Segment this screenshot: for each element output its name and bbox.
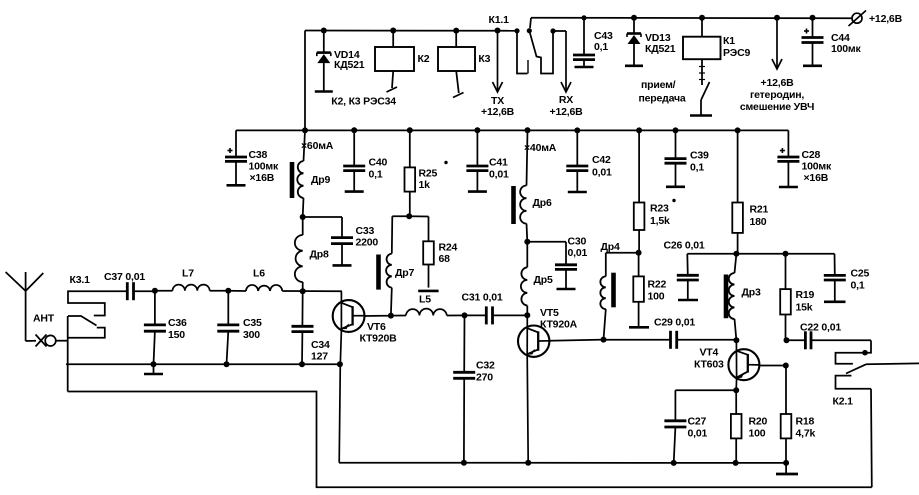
wire [236,129,788,131]
node [407,127,413,133]
label ANT [33,313,55,325]
svg-text:+12,6В: +12,6В [761,77,795,89]
label C34 [311,339,330,363]
wire [549,340,603,341]
svg-text:К3.1: К3.1 [70,274,91,286]
arrow RX +12.6V [561,31,571,92]
label PTT [639,79,686,105]
node [733,387,739,393]
node [152,288,158,294]
resistor R19 [780,254,791,340]
node [601,337,607,343]
wire [68,392,872,488]
core Dr4 [611,273,616,308]
svg-text:С31 0,01: С31 0,01 [462,292,503,304]
inductor L6 [228,285,342,291]
wire [759,365,786,367]
node [581,15,586,20]
svg-text:L6: L6 [253,268,265,280]
svg-text:С29 0,01: С29 0,01 [654,317,695,329]
capacitor C33 [303,217,353,265]
svg-text:0,1: 0,1 [369,169,383,181]
svg-text:VT4: VT4 [700,347,719,359]
svg-text:0,01: 0,01 [489,169,509,181]
node [351,127,357,133]
svg-text:0,01: 0,01 [568,247,588,259]
svg-text:С28: С28 [802,149,821,161]
diode VD13 [625,18,643,66]
node [453,28,459,34]
svg-text:КТ920В: КТ920В [360,333,398,345]
label C25 [851,268,870,292]
label C40 [369,157,388,181]
inductor L5 [391,309,465,316]
wire [304,31,306,131]
svg-text:С35: С35 [243,317,262,329]
svg-text:+12,6В: +12,6В [481,106,515,118]
node [462,312,468,318]
inductor Dr5 [521,242,527,315]
svg-text:0,01: 0,01 [688,428,708,440]
svg-text:×60мА: ×60мА [301,140,334,152]
svg-text:15k: 15k [796,302,813,314]
svg-text:R21: R21 [750,204,769,216]
svg-text:С22 0,01: С22 0,01 [800,322,841,334]
capacitor C34 [292,291,314,364]
svg-text:С38: С38 [249,149,268,161]
wire [866,362,919,365]
wire [675,389,736,391]
svg-text:Др8: Др8 [310,249,329,261]
node [733,251,739,257]
node [784,337,790,343]
svg-text:100мк: 100мк [831,43,861,55]
label VT6 [360,321,398,345]
wire [392,215,428,217]
node [671,460,677,466]
svg-text:150: 150 [168,329,185,341]
label R22 [648,279,667,303]
svg-text:КД521: КД521 [645,43,676,55]
svg-text:КТ603: КТ603 [694,359,724,371]
ground [144,364,163,374]
node [733,337,739,343]
label L5 [419,294,431,306]
capacitor C22 [787,331,872,349]
label C36 [168,317,187,341]
svg-text:+12,6В: +12,6В [869,13,903,25]
svg-text:Др5: Др5 [534,274,553,286]
svg-text:VT6: VT6 [367,321,386,333]
node [461,460,467,466]
capacitor C42 [566,130,588,192]
svg-text:R20: R20 [749,416,768,428]
node [300,288,306,294]
label C29 [654,317,695,329]
node [774,15,780,21]
svg-text:4,7k: 4,7k [796,428,816,440]
label Dr5 [534,274,553,286]
label R20 [749,416,768,440]
svg-text:180: 180 [750,216,767,228]
switch PTT [690,59,712,115]
svg-text:R25: R25 [419,168,438,180]
node [225,288,231,294]
label C35 [243,317,262,341]
node [300,214,306,220]
switch K3.1 [68,291,126,338]
svg-text:К2: К2 [418,53,430,65]
label C37 [104,271,145,283]
svg-text:АНТ: АНТ [33,313,55,325]
capacitor C37 [126,282,155,300]
svg-text:передача: передача [639,93,686,105]
label VT4 [694,347,724,371]
svg-text:0,1: 0,1 [851,280,865,292]
relay K2 [375,31,414,93]
capacitor C41 [466,130,488,191]
label K3 [478,53,490,65]
core Dr6 [511,186,516,224]
label VT5 [540,307,578,331]
capacitor C32 [453,315,475,462]
node [495,28,501,34]
svg-text:С33: С33 [356,225,375,237]
svg-text:К2, К3 РЭС34: К2, К3 РЭС34 [331,96,396,108]
svg-text:К2.1: К2.1 [833,396,854,408]
node [699,15,705,21]
label +12.6V [869,13,903,25]
label K3.1 [70,274,91,286]
capacitor C27 [664,390,686,463]
relay K3 [438,31,475,98]
svg-text:РЭС9: РЭС9 [723,47,750,59]
svg-text:С42: С42 [592,154,611,166]
label R21 [750,204,769,229]
svg-text:С25: С25 [851,268,870,280]
svg-text:127: 127 [311,351,328,363]
arrow heterodyne +12.6V [772,18,782,69]
inductor L7 [155,285,228,291]
resistor R23 [634,130,645,252]
node [636,127,642,133]
label Dr9 [311,174,330,186]
svg-text:100мк: 100мк [249,161,279,173]
ground bus [66,363,340,365]
core Dr9 [290,162,295,198]
svg-text:RX: RX [559,94,573,106]
switch K2.1 [836,340,872,388]
node [321,28,327,34]
capacitor C28 [777,130,799,187]
node [783,251,789,257]
label C33 [356,225,379,249]
resistor R25 [405,130,416,216]
diode VD14 [315,31,333,92]
node [524,312,530,318]
relay K1 [683,18,721,60]
svg-text:0,1: 0,1 [594,41,608,53]
svg-text:+12,6В: +12,6В [550,106,584,118]
svg-text:К3: К3 [478,53,490,65]
label Dr7 [395,267,414,279]
svg-text:×16В: ×16В [250,172,275,184]
transistor VT5 [518,315,549,463]
svg-text:С37 0,01: С37 0,01 [104,271,145,283]
capacitor C38 [225,130,247,185]
svg-text:С30: С30 [568,236,587,248]
svg-text:×40мА: ×40мА [524,142,557,154]
inductor Dr7 [386,216,392,315]
label C22 [800,322,841,334]
node [388,313,394,319]
label K2.1 [833,396,854,408]
svg-text:R19: R19 [796,289,815,301]
svg-text:×16В: ×16В [804,172,829,184]
label x40mA [524,142,557,154]
label C43 [594,30,613,53]
capacitor C36 [144,291,166,365]
node [735,127,741,133]
label K1.1 [489,14,510,26]
label R18 [796,416,816,440]
label C28 [802,149,832,184]
svg-text:К1: К1 [723,35,735,47]
svg-text:Др4: Др4 [601,241,620,253]
label RX [550,94,584,118]
svg-text:смешение УВЧ: смешение УВЧ [740,101,814,113]
label VD14 [334,49,365,71]
resistor R22 [629,253,649,327]
node [525,460,531,466]
capacitor C39 [665,130,687,186]
capacitor C26 [677,254,699,300]
node [733,460,739,466]
svg-text:100: 100 [648,291,665,303]
svg-text:100: 100 [749,428,766,440]
node [783,363,789,369]
capacitor C44 [802,18,824,66]
label R24 [439,242,458,266]
resistor R24 [418,217,438,291]
node [299,361,305,367]
svg-text:КТ920А: КТ920А [540,319,578,331]
svg-text:С41: С41 [489,157,508,169]
inductor Dr9 [297,130,305,217]
svg-text:68: 68 [439,253,451,265]
svg-text:К1.1: К1.1 [489,14,510,26]
svg-text:270: 270 [476,372,493,384]
svg-text:VT5: VT5 [540,307,559,319]
core Dr3 [724,275,729,319]
capacitor C25 [824,254,846,302]
wire [67,316,69,392]
svg-text:300: 300 [243,329,260,341]
node [673,127,679,133]
svg-text:С27: С27 [688,416,707,428]
svg-text:прием/: прием/ [641,79,676,91]
capacitor C30 [527,242,577,289]
label heterodyne [740,77,814,113]
label C31 [462,292,503,304]
node [390,28,396,34]
label R25 [419,161,448,191]
label K2 K3 type [331,96,396,108]
resistor R21 [732,130,743,253]
node [574,127,580,133]
label Dr4 [601,241,620,253]
wire [687,253,834,255]
label C27 [688,416,708,440]
svg-text:0,1: 0,1 [690,162,704,174]
resistor R18 [781,366,792,463]
label C32 [476,360,495,384]
ground rail [339,462,786,464]
svg-text:С32: С32 [476,360,495,372]
svg-text:Др6: Др6 [533,197,552,209]
label K2 [418,53,430,65]
label VD13 [645,32,676,55]
inductor Dr4 [600,253,638,340]
resistor R20 [731,390,742,463]
svg-text:С26 0,01: С26 0,01 [664,240,705,252]
wire [305,30,517,32]
capacitor C43 [573,18,595,67]
svg-text:КД521: КД521 [334,59,365,71]
label L6 [253,268,265,280]
label Dr3 [742,287,761,299]
terminal antenna [36,335,68,347]
node [524,239,530,245]
node [302,127,308,133]
svg-text:100мк: 100мк [802,161,832,173]
node [151,361,157,367]
label C44 [831,32,861,55]
svg-text:L5: L5 [419,294,431,306]
transistor VT6 [333,291,365,462]
svg-text:С40: С40 [369,157,388,169]
label C38 [249,149,279,184]
node [224,361,230,367]
transistor VT4 [728,340,759,390]
svg-text:С39: С39 [690,150,709,162]
label Dr8 [310,249,329,261]
antenna [6,272,44,341]
capacitor C29 [604,331,737,349]
svg-text:Др9: Др9 [311,174,330,186]
svg-text:гетеродин,: гетеродин, [750,89,804,101]
svg-text:С34: С34 [311,339,330,351]
label R23 [650,199,676,227]
node [406,213,412,219]
inductor Dr3 [729,254,737,340]
svg-text:Др3: Др3 [742,287,761,299]
wire [531,17,852,19]
wire [870,389,873,488]
node [337,361,343,367]
wire [364,315,391,317]
label K1 [723,35,750,59]
svg-text:Др7: Др7 [395,267,414,279]
svg-text:1k: 1k [419,179,431,191]
ground [776,463,798,474]
svg-text:R23: R23 [650,203,669,215]
terminal +12.6V [849,11,867,27]
label C30 [568,236,588,260]
svg-text:1,5k: 1,5k [650,215,670,227]
label C26 [664,240,705,252]
core Dr7 [376,255,381,290]
node [783,460,789,466]
capacitor C31 [465,306,528,324]
node [631,15,637,21]
node [636,250,642,256]
svg-text:2200: 2200 [356,237,379,249]
label C42 [592,154,612,179]
arrow TX +12.6V [493,31,503,93]
node [525,127,531,133]
node [810,15,816,21]
svg-text:0,01: 0,01 [592,167,612,179]
capacitor C35 [217,291,239,365]
node [474,127,480,133]
switch K1.1 [514,18,566,74]
svg-text:R24: R24 [439,242,458,254]
label C39 [690,150,709,174]
inductor Dr8 [295,217,303,291]
label R19 [796,289,815,314]
label C41 [489,157,509,181]
inductor Dr6 [520,130,527,242]
svg-text:С36: С36 [168,317,187,329]
label Dr6 [533,197,552,209]
label L7 [182,268,194,280]
svg-text:R18: R18 [796,416,815,428]
label TX [481,95,515,118]
svg-text:R22: R22 [648,279,667,291]
svg-text:L7: L7 [182,268,194,280]
capacitor C40 [343,130,365,191]
label x60mA [301,140,334,152]
